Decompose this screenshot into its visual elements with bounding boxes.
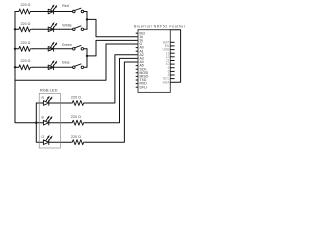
LED D1 red (48, 5, 57, 14)
node green row (14, 48, 16, 50)
node pair1 (86, 18, 88, 20)
LED D3 green (48, 42, 57, 51)
svg-text:Green: Green (62, 43, 72, 47)
svg-text:R: R (42, 96, 45, 100)
svg-text:220 Ω: 220 Ω (21, 22, 31, 26)
switch S1 (73, 8, 84, 13)
switch S3 (73, 45, 84, 50)
LED D4 blue (48, 61, 57, 70)
resistor R1 220Ω red row (18, 9, 33, 14)
switch S2 (73, 26, 84, 31)
svg-text:White: White (62, 23, 71, 27)
svg-text:RGB LED: RGB LED (40, 88, 58, 93)
board left pin stubs (136, 33, 138, 87)
svg-text:SDA: SDA (163, 80, 171, 84)
wire red row (15, 11, 87, 13)
wire RGB common stubs (36, 103, 43, 142)
node pair2 (86, 55, 88, 57)
svg-text:220 Ω: 220 Ω (21, 3, 31, 7)
LED RGB R (43, 96, 52, 105)
board right pin stubs (170, 42, 174, 82)
svg-text:220 Ω: 220 Ω (71, 115, 81, 119)
node blue row (14, 66, 16, 68)
wire SDA loop (170, 30, 180, 83)
board right pin labels (163, 40, 171, 84)
labels 220Ω top (21, 3, 82, 139)
svg-text:Blue: Blue (62, 61, 69, 65)
resistor R3 220Ω green row (18, 46, 33, 51)
svg-text:Red: Red (62, 4, 69, 8)
ground bus vertical (15, 12, 36, 123)
resistor R5 220Ω bottom R (71, 101, 86, 106)
wire pair1 to 3v (87, 19, 138, 36)
junction dots (14, 18, 88, 124)
svg-text:220 Ω: 220 Ω (21, 59, 31, 63)
resistor R4 220Ω blue row (18, 65, 33, 70)
svg-text:DFU: DFU (140, 85, 148, 89)
wire pair1 joiner (86, 12, 88, 30)
wire A2 to R resistor (86, 55, 138, 103)
LED RGB G (43, 136, 52, 145)
wire blue row (15, 66, 87, 68)
node RGB common (35, 122, 37, 124)
wire G pin (106, 43, 138, 45)
wire green row (15, 48, 87, 50)
LED D2 white (48, 23, 57, 32)
wire A4 to G resistor (86, 62, 138, 142)
svg-text:220 Ω: 220 Ω (71, 96, 81, 100)
svg-text:G: G (42, 135, 45, 139)
wire RGB rows (49, 103, 71, 142)
board U1 Bluefruit NRF52 Feather (138, 30, 170, 93)
resistor R2 220Ω white row (18, 27, 33, 32)
wire A3 to B resistor (86, 58, 138, 122)
svg-text:220 Ω: 220 Ω (21, 41, 31, 45)
wire ground horizontal to board G (15, 44, 106, 80)
resistor R6 220Ω bottom B (71, 120, 86, 125)
node white row (14, 28, 16, 30)
RGB LED module box (39, 93, 60, 148)
svg-text:220 Ω: 220 Ω (71, 135, 81, 139)
switch S4 (73, 64, 84, 69)
svg-text:Bluefruit NRF52 Feather: Bluefruit NRF52 Feather (134, 25, 186, 29)
wire white row (15, 28, 87, 30)
resistor R7 220Ω bottom G (71, 140, 86, 145)
wire pair2 to 3v (87, 40, 138, 56)
wire pair2 joiner (86, 49, 88, 68)
LED RGB B (43, 116, 52, 125)
board left pin labels (140, 31, 149, 89)
svg-text:B: B (42, 116, 45, 120)
